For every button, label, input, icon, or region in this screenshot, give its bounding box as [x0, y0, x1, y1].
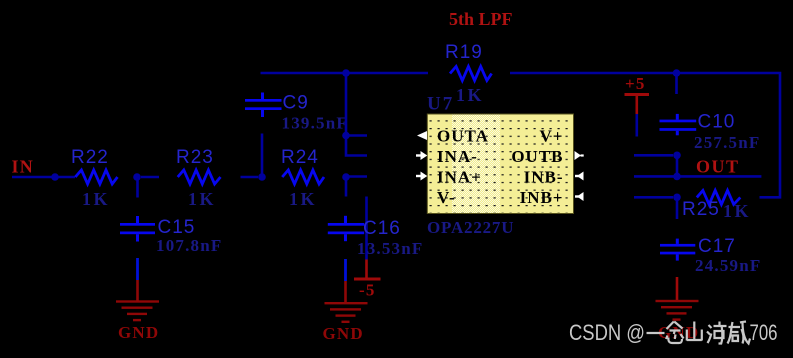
- wire node A down to C15: [136, 180, 139, 198]
- svg-text:1K: 1K: [82, 189, 110, 209]
- ground stem mid (red): [344, 281, 347, 303]
- ground symbol left: [116, 300, 159, 321]
- node G junction OUTB-C10: [673, 152, 681, 160]
- svg-text:139.5nF: 139.5nF: [282, 114, 349, 133]
- svg-text:INA-: INA-: [437, 147, 478, 166]
- svg-text:107.8nF: 107.8nF: [156, 236, 223, 255]
- ground stem left (red): [136, 280, 139, 302]
- watermark chinese chars: [647, 322, 751, 344]
- svg-text:INB+: INB+: [520, 188, 564, 207]
- svg-text:1K: 1K: [723, 201, 751, 221]
- svg-text:706: 706: [750, 320, 778, 345]
- wire INB- net: [634, 196, 673, 199]
- svg-text:INA+: INA+: [437, 168, 482, 187]
- resistor R24: [282, 170, 324, 184]
- svg-text:C16: C16: [363, 218, 401, 239]
- power +5 stem red: [635, 96, 638, 114]
- svg-text:R23: R23: [176, 147, 214, 168]
- svg-text:OPA2227U: OPA2227U: [427, 218, 514, 237]
- svg-text:V+: V+: [540, 127, 564, 146]
- wire stub INA+: [346, 175, 367, 178]
- svg-text:1K: 1K: [289, 189, 317, 209]
- svg-text:-5: -5: [359, 281, 376, 300]
- svg-text:R24: R24: [281, 147, 319, 168]
- capacitor C10: [660, 114, 697, 135]
- svg-text:INB-: INB-: [524, 168, 564, 187]
- wire R23 to node B: [241, 176, 259, 179]
- pin arrow OUTA: [417, 131, 427, 140]
- wire C9 lower lead: [261, 134, 264, 175]
- wire OUTB net: [634, 154, 673, 157]
- wire C17 upper lead: [676, 201, 679, 219]
- capacitor C16: [328, 216, 364, 241]
- svg-text:5th LPF: 5th LPF: [449, 9, 513, 29]
- svg-text:CSDN @: CSDN @: [569, 320, 645, 345]
- capacitor C15: [120, 216, 155, 242]
- ground stem right (red): [676, 277, 679, 301]
- wire C10 upper lead: [675, 75, 678, 94]
- node I junction R25-C17: [673, 194, 681, 202]
- svg-text:OUTB: OUTB: [511, 147, 563, 166]
- svg-text:OUT: OUT: [696, 157, 740, 177]
- op-amp U7 body: [427, 114, 573, 214]
- wire node C down to C16: [345, 180, 348, 197]
- node D junction top wire: [342, 69, 350, 77]
- pin arrow INB+: [575, 192, 584, 201]
- svg-text:U7: U7: [427, 94, 454, 115]
- svg-text:V-: V-: [437, 188, 456, 207]
- wire node A to R23: [141, 176, 159, 179]
- svg-text:C9: C9: [283, 93, 309, 114]
- node E junction top wire right: [673, 69, 681, 77]
- power -5 bar: [354, 278, 381, 281]
- wire junction G down to H: [676, 155, 679, 176]
- wire C15 to ground: [136, 258, 139, 280]
- wire stub OUTA horizontal: [346, 134, 367, 137]
- svg-text:IN: IN: [12, 157, 34, 177]
- node C junction R24 output: [342, 173, 350, 181]
- wire feedback vertical to INA- stub: [346, 73, 367, 156]
- wire C16 to ground: [344, 259, 347, 281]
- svg-text:C17: C17: [698, 236, 736, 257]
- resistor R22: [75, 170, 117, 184]
- wire IN to R22: [12, 176, 75, 179]
- resistor R19: [450, 67, 492, 81]
- node A junction R22-C15: [133, 173, 141, 181]
- node F junction on feedback vertical: [342, 132, 350, 140]
- ground symbol mid: [325, 302, 368, 323]
- pin arrow INA-: [416, 151, 427, 160]
- svg-text:R25: R25: [682, 199, 720, 220]
- wire +5 stem blue: [635, 114, 638, 137]
- wire top feedback right segment: [510, 73, 780, 197]
- svg-text:257.5nF: 257.5nF: [694, 133, 761, 152]
- node B junction R23-R24-C9: [258, 173, 266, 181]
- svg-text:C15: C15: [158, 217, 196, 238]
- wire OUT net: [634, 175, 761, 178]
- capacitor C9: [245, 93, 282, 118]
- svg-text:R22: R22: [71, 147, 109, 168]
- svg-text:1K: 1K: [456, 85, 484, 105]
- wire V- vertical: [365, 197, 368, 260]
- svg-text:24.59nF: 24.59nF: [695, 256, 762, 275]
- node H junction OUT: [673, 173, 681, 181]
- svg-text:1K: 1K: [188, 189, 216, 209]
- svg-text:C10: C10: [698, 112, 736, 133]
- pin arrow OUTB: [575, 151, 584, 160]
- svg-text:OUTA: OUTA: [437, 127, 489, 146]
- pin arrow INA+: [416, 172, 427, 181]
- resistor R25: [697, 190, 741, 204]
- svg-text:13.53nF: 13.53nF: [357, 239, 424, 258]
- power +5 bar: [625, 93, 650, 96]
- power -5 stem red: [365, 260, 368, 278]
- node IN junction: [51, 173, 59, 181]
- svg-text:R19: R19: [445, 42, 483, 63]
- svg-text:GND: GND: [118, 323, 159, 342]
- ground symbol right: [656, 300, 699, 321]
- pin arrow INB-: [575, 172, 584, 181]
- svg-text:+5: +5: [625, 74, 646, 93]
- capacitor C17: [660, 239, 695, 261]
- wire top feedback left segment: [261, 72, 429, 75]
- svg-text:GND: GND: [323, 324, 364, 343]
- resistor R23: [178, 170, 221, 184]
